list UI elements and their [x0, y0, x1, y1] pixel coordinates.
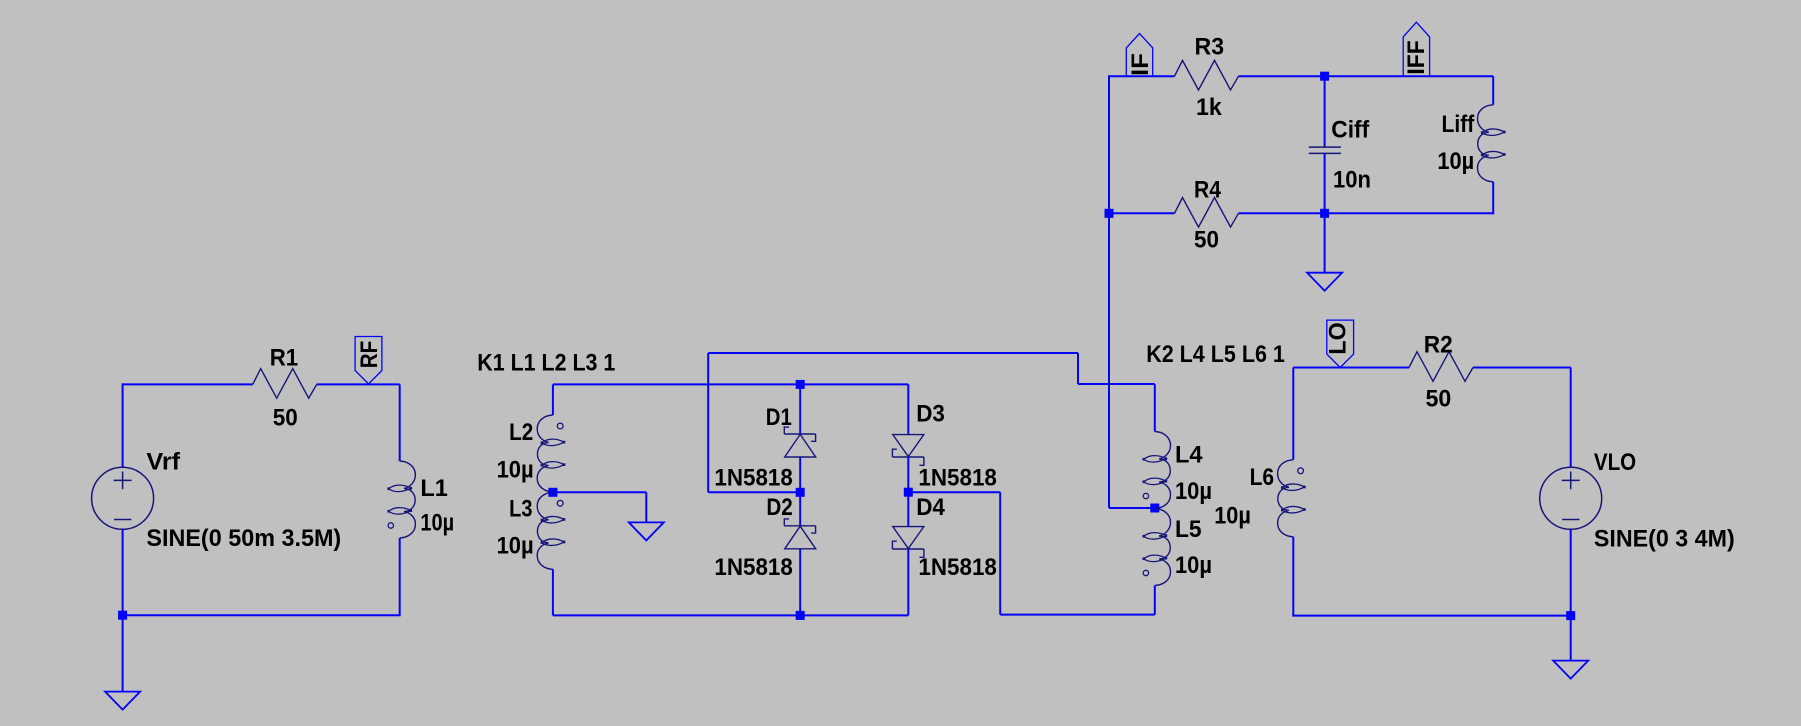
svg-text:R2: R2	[1424, 332, 1453, 359]
svg-text:1N5818: 1N5818	[714, 554, 792, 581]
svg-text:10µ: 10µ	[420, 510, 454, 537]
svg-text:Vrf: Vrf	[146, 449, 181, 476]
svg-text:R3: R3	[1195, 34, 1225, 61]
svg-text:LO: LO	[1325, 322, 1352, 354]
svg-text:50: 50	[1194, 226, 1219, 253]
svg-text:K1 L1 L2 L3 1: K1 L1 L2 L3 1	[477, 350, 615, 377]
svg-text:50: 50	[273, 405, 298, 432]
svg-text:D4: D4	[916, 494, 945, 521]
svg-text:10n: 10n	[1333, 166, 1371, 193]
svg-text:D2: D2	[766, 494, 792, 521]
svg-text:IF: IF	[1127, 53, 1154, 76]
svg-text:L4: L4	[1175, 441, 1203, 468]
svg-text:Liff: Liff	[1442, 111, 1476, 138]
svg-text:1N5818: 1N5818	[714, 465, 792, 492]
svg-text:10µ: 10µ	[1175, 552, 1212, 579]
svg-text:VLO: VLO	[1594, 449, 1636, 476]
svg-text:10µ: 10µ	[1175, 478, 1212, 505]
svg-text:L6: L6	[1250, 464, 1275, 491]
svg-text:10µ: 10µ	[497, 533, 534, 560]
svg-text:10µ: 10µ	[497, 456, 534, 483]
svg-text:10µ: 10µ	[1437, 148, 1474, 175]
svg-text:SINE(0 3 4M): SINE(0 3 4M)	[1594, 525, 1735, 552]
svg-text:RF: RF	[356, 341, 383, 369]
svg-text:50: 50	[1426, 386, 1452, 413]
svg-text:1N5818: 1N5818	[918, 465, 997, 492]
svg-text:1k: 1k	[1196, 94, 1222, 121]
svg-text:1N5818: 1N5818	[918, 554, 997, 581]
svg-text:K2 L4 L5 L6 1: K2 L4 L5 L6 1	[1146, 341, 1285, 368]
svg-text:D1: D1	[766, 404, 792, 431]
svg-text:Ciff: Ciff	[1331, 117, 1370, 144]
svg-text:R1: R1	[270, 344, 298, 371]
svg-text:SINE(0 50m 3.5M): SINE(0 50m 3.5M)	[146, 525, 341, 552]
svg-text:R4: R4	[1194, 177, 1222, 204]
svg-text:L2: L2	[509, 419, 533, 446]
svg-text:L3: L3	[509, 495, 532, 522]
svg-text:L1: L1	[420, 475, 447, 502]
svg-text:IFF: IFF	[1403, 40, 1430, 74]
svg-text:10µ: 10µ	[1214, 502, 1251, 529]
svg-text:L5: L5	[1175, 516, 1202, 543]
svg-text:D3: D3	[916, 401, 945, 428]
